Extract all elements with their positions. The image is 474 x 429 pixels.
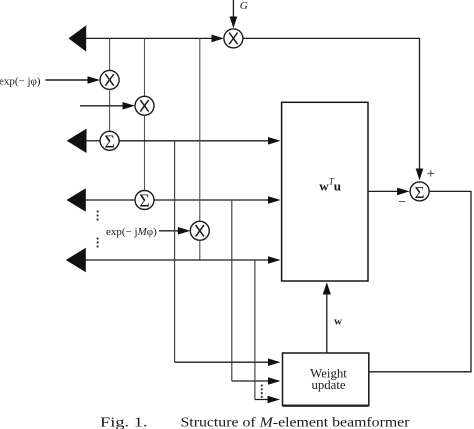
multiplier X3 (190, 221, 209, 240)
svg-text:Σ: Σ (139, 191, 149, 211)
wire wTu output to summer Sout (368, 190, 407, 192)
antenna A3 (67, 188, 86, 211)
svg-text:Σ: Σ (104, 131, 114, 151)
wire XG output right and down to summer (243, 38, 420, 178)
svg-text:exp(− jMφ): exp(− jMφ) (106, 226, 157, 238)
block weight update (283, 353, 369, 405)
wire row2 S1 to wTu box (119, 140, 278, 142)
antenna A2 (67, 129, 87, 153)
wire G input (232, 0, 234, 27)
wire tap3 row4 down to weight update (254, 260, 256, 400)
wire row2 antenna2 to S1 (86, 140, 100, 142)
wire V2 row1 to X2 (144, 38, 146, 96)
svg-text:exp(− jφ): exp(− jφ) (0, 75, 41, 87)
svg-text:−: − (398, 195, 406, 211)
block wTu (282, 102, 368, 281)
summer Sout (410, 182, 429, 201)
antenna A4 (66, 248, 86, 273)
svg-text:Fig. 1.: Fig. 1. (100, 416, 148, 429)
wire V1 row1 to X1 (109, 38, 111, 70)
svg-text:w: w (334, 315, 342, 327)
wire V1 X1 to summer S1 (109, 89, 111, 131)
wire tap1 row2 down to weight update (174, 141, 176, 362)
wire row1 antenna1 to multiplier XG (86, 37, 221, 39)
wire row3 antenna3 to S2 (86, 199, 136, 201)
summer S2 (135, 191, 154, 210)
antenna A1 (69, 25, 87, 51)
wire row3 S2 to wTu box (154, 199, 278, 201)
svg-text:G: G (240, 0, 248, 12)
wire arrow into X2 (80, 105, 133, 107)
wire exp(-jMphi) arrow into X3 (159, 230, 188, 232)
svg-text:+: + (427, 166, 435, 182)
wire tap2 row3 down to weight update (231, 200, 233, 381)
wire Sout output right, down, and into weight update box (369, 191, 471, 371)
svg-text:Structure of M-element beamfor: Structure of M-element beamformer (181, 416, 410, 429)
svg-text:wTu: wTu (319, 177, 341, 194)
wire V3 row1 to X3 (199, 38, 201, 221)
wire w arrow from weight update up into wTu (326, 284, 328, 353)
svg-text:Σ: Σ (415, 183, 425, 202)
svg-text:update: update (311, 378, 345, 392)
wire exp(-jphi) arrow into X1 (46, 79, 98, 81)
multiplier X2 (135, 96, 154, 115)
node ellipsis between antenna3 and antenna4 (97, 210, 99, 247)
summer S1 (100, 131, 119, 150)
wire V3 X3 to row4 (199, 240, 201, 260)
wire row4 antenna4 to wTu box (86, 259, 279, 261)
node ellipsis between weight update inputs (261, 384, 263, 398)
multiplier X1 (100, 70, 119, 89)
wire V2 X2 to summer S2 (144, 115, 146, 190)
multiplier XG (224, 29, 243, 48)
